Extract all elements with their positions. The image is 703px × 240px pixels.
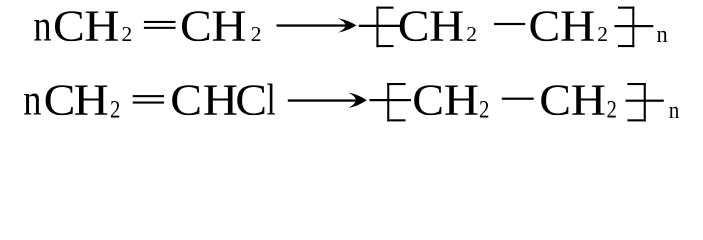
svg-text:H: H [571, 75, 606, 125]
svg-text:C: C [180, 1, 212, 51]
svg-text:2: 2 [110, 97, 120, 124]
svg-text:n: n [23, 75, 41, 125]
svg-text:2: 2 [479, 97, 489, 124]
svg-text:n: n [33, 1, 51, 51]
svg-text:C: C [170, 75, 202, 125]
svg-text:H: H [560, 1, 595, 51]
svg-text:H: H [429, 1, 464, 51]
svg-text:C: C [53, 1, 85, 51]
svg-text:H: H [203, 75, 238, 125]
svg-text:C: C [539, 75, 571, 125]
svg-text:H: H [84, 1, 119, 51]
svg-text:l: l [267, 75, 276, 125]
svg-text:H: H [211, 1, 246, 51]
svg-text:n: n [669, 97, 680, 124]
svg-text:2: 2 [251, 22, 262, 46]
svg-text:H: H [74, 75, 109, 125]
svg-text:2: 2 [122, 22, 133, 46]
svg-text:C: C [235, 75, 267, 125]
svg-text:C: C [412, 75, 444, 125]
svg-text:C: C [398, 1, 430, 51]
svg-text:2: 2 [466, 22, 477, 46]
svg-text:C: C [529, 1, 561, 51]
svg-text:C: C [44, 75, 76, 125]
svg-text:H: H [444, 75, 479, 125]
svg-text:2: 2 [607, 97, 617, 124]
svg-text:2: 2 [597, 22, 608, 46]
svg-text:n: n [657, 22, 668, 48]
